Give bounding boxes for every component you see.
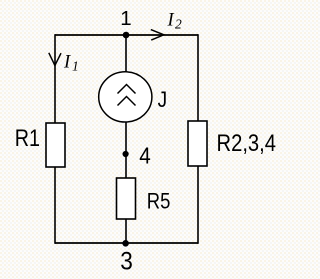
svg-text:4: 4: [139, 143, 151, 169]
resistor R5: [117, 178, 136, 219]
current source J circle: [99, 72, 152, 122]
wire middle R5 to bottom: [125, 219, 127, 243]
current source J upper chevron: [118, 85, 136, 94]
svg-text:R5: R5: [147, 189, 171, 214]
resistor R2,3,4: [188, 121, 207, 166]
node 3 junction dot: [122, 240, 129, 247]
node 4 junction dot: [123, 151, 129, 157]
wire left lower: [54, 167, 56, 244]
arrow I2 head: [151, 30, 164, 40]
svg-text:2: 2: [175, 16, 182, 31]
svg-text:I: I: [167, 10, 175, 30]
wire bottom rail node3: [55, 242, 198, 244]
wire middle circle to R5: [125, 122, 127, 178]
node 1 junction dot: [123, 32, 130, 39]
wire left upper: [54, 34, 56, 123]
svg-text:J: J: [158, 87, 168, 112]
wire right lower: [197, 166, 199, 244]
svg-text:R2,3,4: R2,3,4: [217, 130, 277, 157]
current source J lower chevron: [118, 97, 136, 106]
svg-text:R1: R1: [15, 125, 40, 152]
svg-text:1: 1: [120, 7, 131, 30]
svg-text:3: 3: [120, 248, 133, 275]
wire top rail node1: [55, 34, 198, 36]
wire right upper: [197, 34, 199, 121]
resistor R1: [46, 123, 65, 167]
svg-text:1: 1: [72, 59, 79, 74]
wire middle top: [125, 35, 127, 72]
arrow I1 head: [49, 53, 61, 66]
svg-text:I: I: [63, 52, 71, 72]
